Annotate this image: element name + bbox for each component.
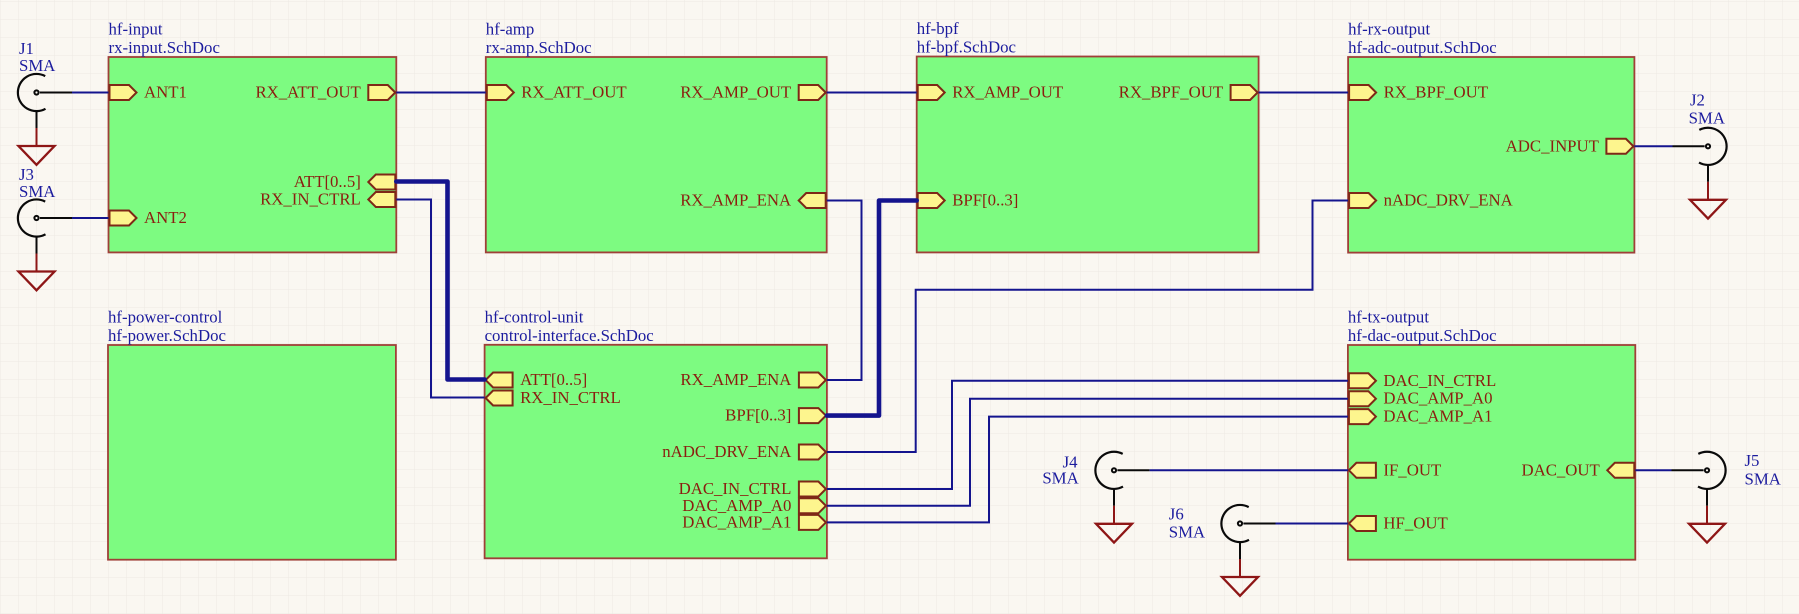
svg-text:DAC_IN_CTRL: DAC_IN_CTRL	[1383, 371, 1496, 390]
sheet entry HF_OUT of hf-tx-output	[1349, 514, 1448, 533]
sheet symbol hf-tx-output	[1348, 345, 1635, 560]
sheet entry RX_ATT_OUT of hf-amp	[487, 83, 627, 102]
sheet symbol hf-rx-output	[1348, 57, 1634, 253]
svg-text:ADC_INPUT: ADC_INPUT	[1506, 136, 1599, 155]
svg-text:SMA: SMA	[1042, 469, 1078, 488]
sheet entry nADC_DRV_ENA of hf-rx-output	[1349, 191, 1513, 210]
svg-text:J6: J6	[1169, 505, 1184, 524]
ground at J3	[19, 254, 55, 291]
svg-text:IF_OUT: IF_OUT	[1383, 460, 1441, 479]
svg-text:RX_ATT_OUT: RX_ATT_OUT	[521, 83, 626, 102]
sheet entry DAC_OUT of hf-tx-output	[1521, 460, 1634, 479]
connector J4 (SMA)	[1095, 452, 1149, 506]
connector J2 (SMA)	[1673, 128, 1727, 182]
svg-text:hf-rx-output: hf-rx-output	[1348, 20, 1430, 39]
svg-text:SMA: SMA	[19, 56, 55, 75]
sheet symbol hf-bpf	[917, 57, 1259, 253]
svg-text:ANT1: ANT1	[144, 83, 187, 102]
svg-text:hf-power-control: hf-power-control	[108, 308, 223, 327]
svg-text:J1: J1	[19, 39, 34, 58]
sheet entry DAC_IN_CTRL of hf-control-unit	[679, 479, 826, 498]
ground at J6	[1222, 559, 1258, 596]
sheet symbol hf-control-unit	[485, 345, 827, 559]
sheet entry DAC_AMP_A0 of hf-control-unit	[682, 496, 826, 515]
ground at J2	[1690, 182, 1726, 219]
connector J5 (SMA)	[1672, 452, 1726, 506]
sheet entry ATT[0..5] of hf-input	[294, 172, 396, 191]
sheet entry DAC_AMP_A1 of hf-tx-output	[1349, 407, 1493, 426]
sheet entry RX_IN_CTRL of hf-input	[260, 190, 395, 209]
sheet entry nADC_DRV_ENA of hf-control-unit	[662, 442, 826, 461]
svg-text:hf-bpf.SchDoc: hf-bpf.SchDoc	[917, 38, 1016, 57]
sheet entry ANT1 of hf-input	[110, 83, 187, 102]
svg-text:HF_OUT: HF_OUT	[1383, 514, 1447, 533]
sheet entry RX_AMP_ENA of hf-control-unit	[680, 370, 825, 389]
svg-text:hf-power.SchDoc: hf-power.SchDoc	[108, 326, 226, 345]
wire net ANT1: J1 to hf-input	[72, 92, 109, 94]
bus BPF[0..3]: hf-control-unit to hf-bpf	[827, 201, 917, 416]
svg-text:hf-amp: hf-amp	[486, 20, 534, 39]
wire net RX_ATT_OUT: hf-input to hf-amp	[396, 92, 486, 94]
svg-text:RX_IN_CTRL: RX_IN_CTRL	[260, 190, 361, 209]
sheet entry IF_OUT of hf-tx-output	[1349, 460, 1441, 479]
wire net nADC_DRV_ENA: hf-control-unit to hf-rx-output	[827, 201, 1348, 453]
wire net RX_IN_CTRL: hf-input to hf-control-unit	[396, 200, 484, 398]
svg-text:DAC_AMP_A0: DAC_AMP_A0	[1383, 389, 1492, 408]
svg-text:hf-bpf: hf-bpf	[917, 19, 959, 38]
sheet entry RX_IN_CTRL of hf-control-unit	[486, 388, 621, 407]
svg-text:BPF[0..3]: BPF[0..3]	[952, 191, 1018, 210]
wire net DAC_AMP_A0: hf-control-unit to hf-tx-output	[827, 399, 1348, 506]
svg-text:hf-dac-output.SchDoc: hf-dac-output.SchDoc	[1348, 326, 1497, 345]
svg-text:RX_AMP_OUT: RX_AMP_OUT	[952, 83, 1063, 102]
svg-text:DAC_AMP_A1: DAC_AMP_A1	[1383, 407, 1492, 426]
svg-text:rx-amp.SchDoc: rx-amp.SchDoc	[486, 38, 592, 57]
svg-text:control-interface.SchDoc: control-interface.SchDoc	[485, 326, 654, 345]
sheet entry RX_ATT_OUT of hf-input	[255, 83, 395, 102]
wire net RX_BPF_OUT: hf-bpf to hf-rx-output	[1259, 92, 1349, 94]
svg-text:RX_AMP_ENA: RX_AMP_ENA	[680, 191, 791, 210]
sheet symbol hf-amp	[486, 57, 827, 252]
svg-text:RX_BPF_OUT: RX_BPF_OUT	[1384, 83, 1488, 102]
svg-text:DAC_OUT: DAC_OUT	[1521, 460, 1599, 479]
connector J6 (SMA)	[1221, 505, 1275, 559]
svg-text:ANT2: ANT2	[144, 208, 187, 227]
ground at J1	[19, 128, 55, 165]
wire net DAC_AMP_A1: hf-control-unit to hf-tx-output	[827, 417, 1348, 523]
svg-text:ATT[0..5]: ATT[0..5]	[294, 172, 361, 191]
svg-text:hf-tx-output: hf-tx-output	[1348, 308, 1429, 327]
sheet entry RX_AMP_ENA of hf-amp	[680, 191, 825, 210]
sheet entry RX_AMP_OUT of hf-amp	[680, 83, 825, 102]
wire net ADC_INPUT: hf-rx-output to J2	[1634, 145, 1672, 147]
sheet symbol hf-power-control	[108, 345, 396, 560]
sheet entry BPF[0..3] of hf-control-unit	[725, 406, 826, 425]
svg-text:BPF[0..3]: BPF[0..3]	[725, 406, 791, 425]
wire net RX_AMP_OUT: hf-amp to hf-bpf	[827, 92, 917, 94]
svg-text:J2: J2	[1690, 90, 1705, 109]
sheet entry DAC_AMP_A0 of hf-tx-output	[1349, 389, 1493, 408]
sheet entry ATT[0..5] of hf-control-unit	[486, 370, 588, 389]
sheet symbol hf-input	[109, 57, 397, 252]
svg-text:RX_AMP_ENA: RX_AMP_ENA	[680, 370, 791, 389]
svg-text:hf-adc-output.SchDoc: hf-adc-output.SchDoc	[1348, 38, 1497, 57]
ground at J5	[1689, 506, 1725, 543]
connector J3 (SMA)	[18, 199, 72, 253]
wire net RX_AMP_ENA: hf-control-unit to hf-amp	[827, 201, 862, 381]
sheet entry RX_BPF_OUT of hf-rx-output	[1349, 83, 1488, 102]
sheet entry DAC_IN_CTRL of hf-tx-output	[1349, 371, 1496, 390]
svg-text:RX_AMP_OUT: RX_AMP_OUT	[680, 83, 791, 102]
sheet entry ANT2 of hf-input	[110, 208, 187, 227]
wire net DAC_IN_CTRL: hf-control-unit to hf-tx-output	[827, 381, 1348, 489]
svg-text:RX_IN_CTRL: RX_IN_CTRL	[520, 388, 621, 407]
sheet entry BPF[0..3] of hf-bpf	[918, 191, 1019, 210]
svg-text:nADC_DRV_ENA: nADC_DRV_ENA	[1384, 191, 1513, 210]
svg-text:RX_ATT_OUT: RX_ATT_OUT	[255, 83, 360, 102]
svg-text:nADC_DRV_ENA: nADC_DRV_ENA	[662, 442, 791, 461]
sheet entry RX_BPF_OUT of hf-bpf	[1119, 83, 1258, 102]
svg-text:SMA: SMA	[1745, 469, 1781, 488]
svg-text:DAC_AMP_A1: DAC_AMP_A1	[682, 512, 791, 531]
svg-text:SMA: SMA	[1689, 109, 1725, 128]
wire net DAC_OUT: hf-tx-output to J5	[1635, 469, 1671, 471]
wire net IF_OUT: J4 to hf-tx-output	[1150, 469, 1348, 471]
sheet entry RX_AMP_OUT of hf-bpf	[918, 83, 1063, 102]
ground at J4	[1096, 506, 1132, 543]
wire net ANT2: J3 to hf-input	[72, 217, 109, 219]
svg-text:ATT[0..5]: ATT[0..5]	[520, 370, 587, 389]
sheet entry DAC_AMP_A1 of hf-control-unit	[682, 512, 826, 531]
bus ATT[0..5]: hf-input to hf-control-unit	[396, 182, 484, 380]
svg-text:hf-control-unit: hf-control-unit	[485, 307, 584, 326]
svg-text:J5: J5	[1745, 451, 1760, 470]
sheet entry ADC_INPUT of hf-rx-output	[1506, 136, 1634, 155]
svg-text:J3: J3	[19, 165, 34, 184]
svg-text:RX_BPF_OUT: RX_BPF_OUT	[1119, 83, 1223, 102]
connector J1 (SMA)	[18, 74, 72, 128]
svg-text:SMA: SMA	[1169, 522, 1205, 541]
wire net HF_OUT: J6 to hf-tx-output	[1275, 523, 1348, 525]
svg-text:rx-input.SchDoc: rx-input.SchDoc	[109, 38, 220, 57]
svg-text:SMA: SMA	[19, 182, 55, 201]
svg-text:hf-input: hf-input	[109, 20, 163, 39]
